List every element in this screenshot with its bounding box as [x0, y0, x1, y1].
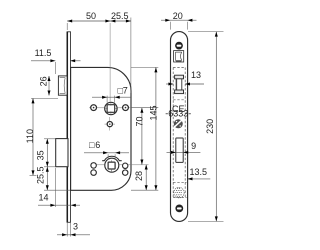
bottom screw hole — [175, 205, 183, 213]
dotted maker stamp — [174, 187, 184, 197]
dim 25.5 lower left — [36, 166, 49, 190]
svg-text:9: 9 — [191, 141, 196, 151]
svg-text:35: 35 — [36, 150, 46, 160]
svg-text:110: 110 — [25, 129, 35, 143]
svg-text:-6333-: -6333- — [165, 109, 191, 119]
svg-text:13.5: 13.5 — [190, 167, 208, 177]
screw holes left of cylinder — [91, 163, 97, 169]
dim 13 roller — [166, 70, 204, 85]
dim 145 — [149, 67, 159, 190]
spindle centerline vertical — [109, 23, 111, 102]
svg-text:230: 230 — [205, 119, 215, 134]
dim 20 — [161, 11, 197, 30]
svg-text:70: 70 — [135, 116, 145, 126]
svg-text:25.5: 25.5 — [36, 166, 46, 184]
dim square 7 spindle — [92, 85, 131, 102]
svg-text:20: 20 — [173, 11, 183, 21]
dim 110 — [25, 98, 58, 175]
dim 230 — [188, 32, 224, 222]
small hole below hub — [105, 117, 116, 131]
dim 14 — [38, 168, 80, 207]
body bottom extension — [44, 189, 70, 191]
svg-text:3: 3 — [73, 222, 78, 232]
svg-text:□: □ — [89, 140, 95, 150]
dim 3 faceplate thickness — [57, 222, 90, 237]
cylinder cap arc — [102, 156, 122, 160]
faceplate outline (stadium) — [171, 32, 188, 222]
screw holes right of cylinder — [123, 163, 128, 168]
latch opening with latch face — [174, 51, 184, 62]
svg-text:25.5: 25.5 — [111, 11, 129, 21]
dim 26 latch height — [39, 76, 51, 96]
lock case outline — [71, 67, 131, 190]
svg-text:11.5: 11.5 — [35, 48, 52, 58]
hidden lock case dashed lines — [172, 68, 174, 198]
follower hub with square spindle hole — [105, 102, 117, 114]
svg-text:13: 13 — [191, 70, 201, 80]
deadbolt (side view, thrown) — [56, 139, 68, 167]
spindle row centerline — [89, 107, 131, 109]
svg-text:28: 28 — [134, 171, 144, 181]
svg-text:26: 26 — [39, 76, 49, 86]
svg-text:50: 50 — [86, 11, 96, 21]
dim 70 — [135, 108, 145, 165]
dim 9 deadbolt opening — [167, 141, 201, 154]
cylinder square hole — [108, 162, 115, 169]
dim 13.5 — [188, 167, 211, 180]
screw post left of spindle — [91, 105, 97, 111]
dim 28 — [134, 165, 148, 191]
latch bolt (side view) — [58, 76, 67, 95]
dim 11.5 — [31, 48, 81, 74]
roller / spool — [175, 75, 184, 93]
right side extensions — [131, 66, 158, 68]
svg-text:145: 145 — [149, 105, 159, 120]
faceplate edge (thin strip) — [67, 32, 70, 223]
dim 35 deadbolt height — [36, 139, 56, 190]
certification stamp — [174, 119, 183, 128]
dim square 6 cylinder — [84, 140, 129, 160]
deadbolt opening — [176, 138, 183, 162]
cylinder row centerline — [96, 164, 149, 166]
cylinder body circle — [105, 158, 119, 172]
screw post right of spindle — [123, 105, 129, 111]
dim 50 / 25.5 top — [67, 11, 131, 93]
svg-text:14: 14 — [38, 193, 48, 203]
svg-text:6: 6 — [95, 140, 100, 150]
top screw hole — [175, 42, 183, 50]
svg-text:7: 7 — [123, 86, 128, 96]
